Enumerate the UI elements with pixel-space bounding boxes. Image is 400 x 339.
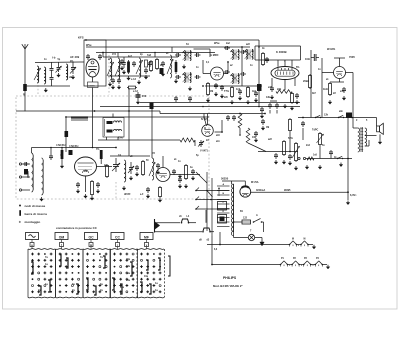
- switch contact grid: [31, 253, 161, 294]
- resistor R13: [91, 180, 93, 182]
- wire chain1 end: [308, 244, 313, 246]
- svg-text:montaggio: montaggio: [25, 220, 41, 224]
- capacitor C28: [343, 87, 345, 89]
- wire V1 cathode: [92, 77, 94, 82]
- capacitor C54: [276, 103, 278, 105]
- resistor R14: [142, 160, 144, 162]
- wire OPT top: [352, 124, 354, 128]
- resistor R16: [159, 186, 161, 188]
- capacitor C55: [121, 59, 123, 61]
- resistor R12: [329, 82, 331, 84]
- capacitor C61: [179, 177, 181, 179]
- wire mid horizontal: [98, 139, 180, 141]
- capacitor C35: [136, 165, 138, 167]
- wire OPT sec to speaker: [365, 135, 377, 137]
- coil L8: [32, 148, 34, 193]
- tube V3 EF89 AM/FM IF: [156, 168, 170, 182]
- switch contact bars: [31, 254, 160, 295]
- svg-text:7%: 7%: [96, 149, 99, 151]
- wire IFT1 to V5: [194, 48, 211, 50]
- ground: [128, 76, 130, 78]
- capacitor C58: [296, 93, 298, 95]
- tap box lower: [218, 215, 227, 224]
- wire x348 HT: [347, 118, 349, 201]
- capacitor C59: [175, 96, 177, 98]
- svg-text:nodi di massa: nodi di massa: [25, 204, 46, 208]
- wire terminals: [22, 163, 30, 165]
- ground: [327, 265, 329, 267]
- wire antenna down-lead: [24, 91, 26, 111]
- tube V6 ECL86: [271, 67, 299, 80]
- switch S5: [202, 228, 214, 233]
- contact chain 1: [289, 244, 291, 246]
- phono jack J1: [155, 219, 160, 233]
- svg-text:1kΩ: 1kΩ: [323, 88, 328, 91]
- ground: [183, 65, 185, 67]
- wire V3 out: [170, 174, 200, 176]
- svg-text:25a: 25a: [126, 279, 131, 282]
- tube V7 UL84: [334, 67, 346, 79]
- ground: [77, 189, 79, 191]
- wire V7 grid: [322, 72, 334, 74]
- legend mark bar: [19, 210, 21, 216]
- resistor R10 zigzag: [276, 90, 292, 94]
- switch wafer box 2: [56, 249, 84, 298]
- svg-text:50250: 50250: [221, 177, 229, 181]
- wire det caps: [269, 110, 271, 114]
- wire V6 pins up: [277, 60, 279, 67]
- resistor R30: [291, 92, 293, 94]
- resistor R18 zigzag: [246, 128, 250, 143]
- dark component Z4: [24, 169, 28, 175]
- heater bundle vertical: [206, 172, 208, 231]
- ground: [91, 196, 93, 198]
- voltage selector switch: [206, 190, 212, 201]
- svg-text:l·b: l·b: [52, 56, 56, 60]
- tube V5 EF89: [211, 67, 224, 80]
- wire vertical x152: [151, 103, 153, 158]
- legend mark node: [19, 205, 21, 207]
- capacitor C9: [133, 61, 135, 63]
- transformer taps: [196, 186, 230, 227]
- capacitor C12: [118, 78, 120, 80]
- wire AM input bus: [35, 61, 80, 64]
- ground: [231, 100, 233, 102]
- switch wafer box 5: [137, 249, 165, 298]
- ground: [147, 194, 149, 196]
- ground: [58, 73, 60, 75]
- dashed enclosure AM/FM tuner unit: [16, 96, 209, 199]
- tube V4 EABC80: [202, 125, 214, 137]
- ground: [275, 160, 277, 162]
- capacitor C4: [50, 63, 54, 75]
- svg-text:1M: 1M: [266, 127, 269, 129]
- wire tone pot down: [319, 146, 321, 159]
- bracket right of table: [168, 256, 170, 276]
- component blob: [69, 150, 73, 155]
- variable coil L6: [136, 58, 143, 78]
- wire between IFTs: [241, 47, 243, 86]
- coil L9: [42, 158, 44, 195]
- ground: [340, 163, 342, 165]
- wire V5 anode: [224, 73, 229, 75]
- ground: [247, 100, 249, 102]
- capacitor C13 feedthrough: [136, 92, 141, 100]
- variable coil L4: [107, 58, 114, 80]
- wire cluster lower: [108, 75, 150, 77]
- wire long lower bus: [100, 106, 300, 108]
- svg-text:WVu: WVu: [214, 42, 220, 45]
- wire jack lower: [155, 231, 203, 233]
- wire rect top: [244, 181, 246, 186]
- svg-text:barra di ricerca: barra di ricerca: [25, 212, 48, 216]
- trimmer C52: [198, 140, 204, 147]
- heater bundle vertical 2: [211, 178, 213, 236]
- capacitor C16: [195, 54, 197, 56]
- capacitor C23: [266, 57, 268, 59]
- tap box upper: [218, 202, 227, 211]
- capacitor C31: [77, 182, 79, 184]
- trimmer capacitor C8: [122, 57, 126, 68]
- capacitor C42: [262, 119, 264, 121]
- wire to IFT1: [150, 56, 178, 58]
- svg-text:10Ω: 10Ω: [305, 58, 310, 61]
- switch table header ∿: [26, 233, 39, 250]
- ground: [296, 100, 298, 102]
- ground: [162, 72, 164, 74]
- switch table header MF: [140, 233, 153, 250]
- capacitor C22b: [240, 73, 242, 75]
- wire bus drop x259: [258, 40, 260, 106]
- svg-text:20a: 20a: [126, 258, 131, 261]
- wire can to rail: [112, 114, 114, 118]
- dashed gang link C1b: [108, 55, 110, 95]
- svg-text:G MFD: G MFD: [210, 53, 218, 57]
- resistor R22 zigzag: [307, 157, 314, 160]
- dark component Z2: [257, 84, 262, 91]
- svg-text:M: M: [292, 239, 294, 241]
- ground: [112, 85, 114, 87]
- resistor R20: [283, 140, 285, 142]
- capacitor C39: [147, 187, 149, 189]
- FM dipole element: [71, 118, 88, 121]
- trimmer C34: [128, 162, 134, 174]
- svg-text:r: r: [117, 243, 118, 247]
- capacitor C32: [97, 182, 99, 184]
- switch S4: [181, 219, 196, 224]
- mains plug arrow: [260, 240, 264, 246]
- dashed gang link C1: [37, 78, 39, 96]
- wire grid rail: [32, 147, 117, 149]
- ground: [329, 100, 331, 102]
- loudspeaker LS1: [377, 123, 384, 134]
- switch tiny labels: [38, 256, 158, 292]
- capacitor C17: [175, 76, 177, 78]
- ground: [255, 98, 257, 100]
- wire tone rail: [298, 117, 352, 119]
- terminal A1: [19, 163, 21, 165]
- ground: [221, 94, 223, 96]
- ground: [136, 172, 138, 174]
- svg-text:17a: 17a: [126, 265, 131, 268]
- coil L12: [149, 158, 155, 180]
- wire jack upper: [156, 222, 180, 224]
- ground: [192, 176, 194, 178]
- resistor R1: [127, 60, 130, 74]
- svg-text:4 NCFH: 4 NCFH: [56, 143, 65, 147]
- wire bus drop x103: [102, 53, 104, 58]
- trimmer capacitor C3: [70, 62, 76, 74]
- ground: [175, 79, 177, 81]
- wire bus drop x118: [117, 53, 119, 58]
- wire HT bus mid: [86, 46, 250, 48]
- ground: [284, 104, 286, 106]
- svg-text:12k: 12k: [324, 114, 329, 117]
- svg-text:AF 409: AF 409: [70, 55, 80, 59]
- ground: [185, 184, 187, 186]
- svg-text:10a: 10a: [144, 275, 149, 278]
- capacitor C29: [261, 107, 263, 109]
- box K4000B: [255, 46, 301, 60]
- wire drop x322: [321, 58, 323, 118]
- capacitor C6: [87, 54, 89, 56]
- switch wafer box 1: [28, 249, 56, 298]
- switch table header CC: [111, 233, 124, 250]
- capacitor C40: [227, 115, 229, 117]
- resistor R3: [127, 87, 129, 89]
- resistor R6: [207, 82, 209, 84]
- capacitor C7: [99, 54, 101, 56]
- ground: [123, 186, 125, 188]
- dark resistor R28: [100, 150, 103, 164]
- selector arrow: [218, 188, 220, 197]
- switch S1: [315, 117, 316, 118]
- IF transformer: [182, 73, 191, 83]
- svg-text:a 13: a 13: [131, 78, 136, 81]
- wire chain1 feed: [219, 232, 221, 245]
- wire V4 top: [207, 114, 209, 125]
- wire V3 top: [162, 156, 164, 168]
- wire lamp left: [233, 232, 235, 238]
- ground: [295, 166, 297, 168]
- wire af: [258, 151, 298, 153]
- shield can V1: [84, 40, 106, 86]
- capacitor C37: [173, 169, 175, 171]
- wire chain2 end: [322, 264, 327, 266]
- svg-text:30a: 30a: [120, 286, 125, 289]
- wire HT bus lower: [96, 52, 215, 54]
- ground: [109, 82, 111, 84]
- resistor R5: [175, 60, 178, 74]
- svg-text:N°(M): N°(M): [201, 118, 208, 121]
- resistor R27: [61, 148, 64, 165]
- wire can down a: [106, 137, 108, 140]
- pilot lamp LP1: [248, 234, 254, 240]
- capacitor C21b: [224, 71, 226, 73]
- wire bus drop x172: [171, 47, 173, 52]
- svg-text:A: A: [256, 214, 258, 217]
- svg-text:6,3V≈: 6,3V≈: [350, 194, 357, 197]
- capacitor C24: [239, 89, 241, 91]
- wire heater rail: [66, 116, 209, 118]
- wire rect out: [251, 191, 348, 193]
- switch wafer box 4: [110, 249, 138, 298]
- wire transformer top: [231, 181, 233, 184]
- coil L2b: [44, 67, 46, 84]
- volume potentiometer R19: [292, 142, 300, 162]
- ground: [313, 245, 315, 247]
- ground: [289, 161, 291, 163]
- wire lamp right: [255, 237, 262, 239]
- svg-text:150: 150: [142, 95, 147, 98]
- resistor R2: [145, 60, 148, 67]
- ground: [283, 160, 285, 162]
- wire chain2 feed: [211, 236, 213, 265]
- wire V5 grid: [203, 73, 211, 75]
- capacitor C26: [271, 86, 273, 88]
- terminal A2: [19, 176, 21, 178]
- tap letters: [223, 183, 225, 222]
- capacitor C57: [50, 154, 52, 156]
- wire cluster top: [103, 56, 150, 58]
- IF transformer: [230, 74, 239, 84]
- svg-text:122: 122: [243, 217, 248, 220]
- ground: [215, 92, 217, 94]
- capacitor C11: [112, 78, 114, 80]
- wire V6 pins down: [271, 78, 273, 86]
- wire diagonal feed: [196, 172, 207, 183]
- wire mains top: [234, 221, 243, 223]
- svg-text:commutatore in posizione CC: commutatore in posizione CC: [56, 226, 98, 230]
- wire mains down: [262, 221, 264, 223]
- svg-text:f: f: [61, 243, 62, 247]
- resistor R4: [156, 58, 158, 60]
- ground: [239, 96, 241, 98]
- scattered value labels: [44, 43, 368, 251]
- IF transformer: [230, 50, 239, 60]
- ground: [271, 95, 273, 97]
- wire zigzag down: [194, 140, 196, 146]
- svg-text:90/95: 90/95: [284, 188, 291, 192]
- ground: [157, 170, 159, 172]
- antenna loading coil L1: [23, 84, 27, 91]
- capacitor C14: [162, 61, 164, 63]
- svg-text:KFS: KFS: [78, 36, 84, 40]
- wire tone lower: [306, 158, 352, 160]
- switch S2: [338, 117, 339, 118]
- capacitor C21: [224, 47, 226, 49]
- svg-text:Mod. B3 I86 'WA.DE 2": Mod. B3 I86 'WA.DE 2": [213, 284, 243, 288]
- svg-text:OM: OM: [59, 236, 65, 240]
- svg-text:a·F: a·F: [140, 194, 144, 196]
- switch S7: [203, 114, 206, 129]
- coil L11: [124, 160, 126, 182]
- resistor R25 zigzag: [180, 138, 195, 142]
- wire up x290: [289, 132, 291, 152]
- wire mid: [110, 155, 150, 157]
- resistor R15: [185, 164, 187, 166]
- power transformer T1 winding: [231, 184, 233, 236]
- resistor R26: [150, 60, 152, 62]
- svg-text:K 4000B: K 4000B: [276, 50, 287, 54]
- dark component Z1: [160, 68, 164, 74]
- wire V2 anode: [97, 166, 113, 168]
- ground: [179, 184, 181, 186]
- wire speaker feed: [352, 117, 377, 119]
- ground: [306, 165, 308, 167]
- wire V7 top: [339, 58, 341, 67]
- capacitor C60: [189, 96, 191, 98]
- ground 6.3V: [347, 201, 349, 203]
- svg-text:W.42%: W.42%: [327, 47, 336, 51]
- svg-text:TdPC: TdPC: [312, 129, 319, 132]
- capacitor C20: [221, 85, 223, 87]
- capacitor C46: [302, 121, 304, 123]
- ground: [255, 138, 257, 140]
- ground: [319, 165, 321, 167]
- capacitor C10: [149, 61, 151, 63]
- capacitor C30: [23, 163, 25, 165]
- svg-text:CC: CC: [115, 236, 120, 240]
- ground: [123, 70, 125, 72]
- ground: [207, 98, 209, 100]
- wire lower strip: [205, 85, 262, 87]
- ground: [45, 88, 47, 90]
- dark component Z5: [150, 103, 154, 110]
- dark capacitor 10n: [346, 113, 352, 119]
- resistor R8: [231, 86, 233, 88]
- svg-text:2M: 2M: [84, 171, 87, 173]
- svg-text:35a: 35a: [126, 272, 131, 275]
- capacitor C53: [269, 103, 271, 105]
- switch table header OC: [85, 233, 98, 250]
- capacitor C18: [195, 76, 197, 78]
- svg-text:7005: 7005: [349, 55, 355, 59]
- ground: [130, 176, 132, 178]
- component on rail: [65, 131, 69, 137]
- capacitor C5: [56, 63, 62, 73]
- capacitor C22: [240, 51, 242, 53]
- capacitor C47: [330, 150, 332, 152]
- switch wafer box 3: [83, 249, 111, 298]
- tube V2 ECH81: [75, 157, 97, 176]
- capacitor C4b: [50, 74, 54, 86]
- wire det: [239, 128, 241, 135]
- switch S3: [337, 158, 338, 159]
- terminal small b: [303, 157, 305, 159]
- svg-text:4%: 4%: [70, 60, 73, 63]
- svg-text:T7%: T7%: [224, 90, 230, 93]
- svg-text:HF/FF: HF/FF: [124, 194, 131, 196]
- wire V7 anode to OPT: [346, 72, 354, 74]
- terminal small a: [298, 157, 300, 159]
- wire HT bus upper: [84, 39, 259, 41]
- svg-text:20kΩ: 20kΩ: [303, 80, 309, 83]
- svg-text:MF: MF: [144, 236, 149, 240]
- ground: [138, 80, 140, 82]
- wire speaker gnd: [379, 134, 381, 140]
- wire det diagonal: [248, 143, 266, 152]
- resistor R17 zigzag: [238, 114, 242, 129]
- variable capacitor C33: [112, 158, 120, 172]
- wire V2 bottom: [85, 176, 87, 192]
- tube V1 ECC85: [86, 59, 99, 77]
- mains switch S6: [253, 219, 263, 223]
- ground: [262, 126, 264, 128]
- svg-text:0/30mA: 0/30mA: [256, 188, 265, 192]
- ground: [343, 96, 345, 98]
- ground: [291, 106, 293, 108]
